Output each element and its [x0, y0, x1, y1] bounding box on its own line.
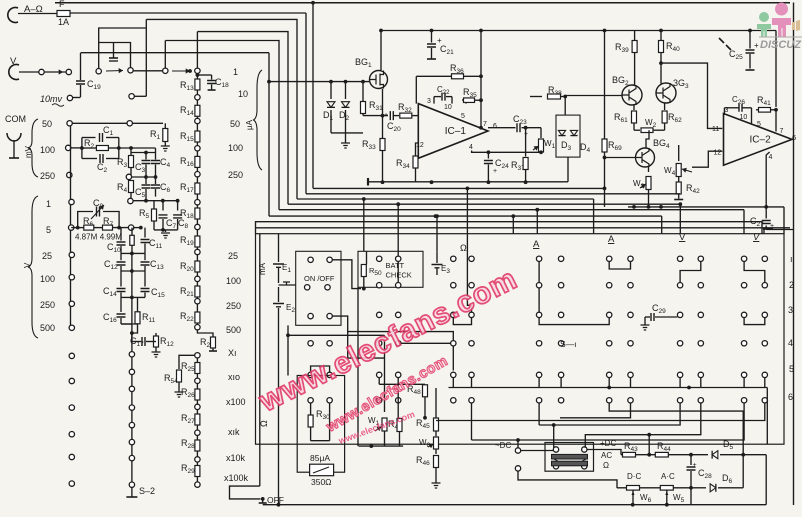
svg-text:W6: W6 — [640, 493, 652, 504]
svg-text:R1: R1 — [150, 129, 161, 141]
wire left drops — [452, 346, 454, 371]
matrix contacts rows — [377, 256, 382, 261]
wire 100 row cont — [117, 146, 121, 150]
wire mA-line down to OFF — [259, 234, 261, 486]
capacitor C21 — [381, 30, 776, 32]
wire pin4 down — [472, 151, 540, 153]
svg-text:R3: R3 — [117, 157, 128, 169]
wire V line — [19, 71, 39, 73]
svg-text:C18: C18 — [215, 77, 229, 89]
divider network R5 C7 C8 — [128, 198, 133, 203]
wire mid H link — [347, 332, 349, 359]
svg-text:C10: C10 — [107, 242, 121, 254]
svg-text:S–2: S–2 — [139, 486, 155, 496]
svg-text:100: 100 — [40, 274, 55, 284]
svg-text:1A: 1A — [58, 17, 69, 27]
wire row5 mid stems — [378, 378, 380, 385]
svg-text:D2: D2 — [339, 110, 350, 122]
wire IC2 pin4 — [766, 152, 769, 207]
wire top rail right — [603, 29, 607, 33]
terminal A-Ohm — [8, 7, 18, 22]
svg-text:C22: C22 — [437, 85, 450, 96]
svg-text:ON /OFF: ON /OFF — [304, 274, 335, 283]
svg-text:BG2: BG2 — [612, 75, 629, 87]
wire BG4 base — [605, 157, 636, 159]
svg-text:R29: R29 — [181, 463, 195, 475]
svg-text:+: + — [493, 168, 497, 175]
svg-text:C16: C16 — [103, 312, 117, 324]
switch S-2 left contacts — [69, 199, 74, 204]
wire middle column down — [131, 253, 133, 484]
svg-text:350Ω: 350Ω — [311, 477, 332, 487]
wire drop x146 — [145, 19, 147, 96]
wire mid bus a — [313, 187, 605, 189]
svg-text:BG1: BG1 — [355, 57, 372, 69]
svg-text:R26: R26 — [181, 387, 195, 399]
svg-text:R44: R44 — [657, 441, 671, 453]
watermark small — [336, 409, 416, 446]
wire analog ground rail — [368, 181, 568, 183]
wire bus3 — [146, 19, 297, 199]
svg-text:C20: C20 — [387, 121, 401, 133]
bracket mV — [28, 119, 38, 177]
svg-text:R35: R35 — [463, 87, 477, 99]
svg-text:W8: W8 — [419, 438, 431, 449]
svg-text:E2: E2 — [286, 303, 295, 314]
svg-text:x10k: x10k — [226, 453, 246, 463]
svg-text:IC–2: IC–2 — [750, 134, 772, 145]
svg-text:100: 100 — [228, 143, 243, 153]
svg-text:10mv: 10mv — [40, 94, 63, 104]
svg-text:D4: D4 — [580, 142, 591, 154]
wire BG1 drain to rail — [380, 31, 382, 71]
svg-text:R40: R40 — [666, 41, 680, 53]
wire onoff down to W1 — [287, 325, 289, 375]
svg-text:3: 3 — [427, 98, 431, 105]
svg-text:R14: R14 — [180, 105, 194, 117]
svg-text:COM: COM — [5, 114, 26, 124]
svg-text:R12: R12 — [160, 336, 174, 348]
divider network R4 C5 C6 — [126, 174, 131, 179]
svg-text:4: 4 — [469, 144, 473, 151]
svg-text:C19: C19 — [87, 79, 101, 91]
svg-text:100: 100 — [226, 276, 241, 286]
svg-text:C4: C4 — [160, 157, 171, 169]
svg-text:25: 25 — [228, 251, 238, 261]
wire matrix connections r1r2 — [538, 262, 540, 283]
svg-text:250: 250 — [226, 301, 241, 311]
rectifier bridge — [545, 443, 594, 472]
svg-text:S—ı: S—ı — [560, 339, 577, 349]
svg-text:500: 500 — [226, 325, 241, 335]
svg-text:C11: C11 — [149, 238, 163, 250]
svg-text:R27: R27 — [181, 413, 195, 425]
battery E1 — [278, 234, 280, 262]
svg-text:4: 4 — [788, 338, 793, 348]
svg-text:250: 250 — [228, 170, 243, 180]
svg-text:C14: C14 — [103, 286, 117, 298]
wire right border — [793, 3, 795, 506]
svg-text:AC: AC — [601, 451, 612, 460]
svg-text:C13: C13 — [150, 259, 164, 271]
op-amp IC-2 — [724, 114, 793, 166]
svg-text:R20: R20 — [180, 261, 194, 273]
wire 50 row — [67, 121, 72, 126]
svg-text:R22: R22 — [180, 311, 194, 323]
svg-text:D3: D3 — [561, 140, 572, 152]
svg-text:R5: R5 — [139, 208, 150, 220]
wire bottom box — [359, 445, 404, 447]
svg-text:C24: C24 — [495, 158, 509, 170]
wire row5 left hooks — [311, 366, 330, 372]
wire bus2 fuse — [305, 13, 307, 194]
wire ac in — [521, 450, 554, 452]
svg-text:11: 11 — [712, 126, 719, 133]
svg-text:D6: D6 — [722, 473, 733, 485]
svg-text:R21: R21 — [180, 286, 194, 298]
wire mid bus b — [306, 193, 680, 195]
bracket V — [28, 196, 38, 338]
svg-text:R45: R45 — [416, 418, 430, 430]
svg-text:2: 2 — [789, 280, 794, 290]
capacitor C18 — [197, 74, 211, 76]
wire D3D4 bottom — [567, 157, 569, 182]
svg-text:6: 6 — [493, 123, 497, 130]
svg-text:xıo: xıo — [228, 372, 240, 382]
svg-text:50: 50 — [230, 119, 240, 129]
svg-text:25: 25 — [42, 251, 52, 261]
svg-text:R13: R13 — [180, 80, 194, 92]
ground top right — [763, 229, 765, 234]
svg-text:R50: R50 — [369, 266, 382, 277]
svg-text:C1: C1 — [103, 125, 114, 137]
svg-text:6: 6 — [788, 392, 793, 402]
wire bus5 — [165, 41, 279, 210]
svg-text:DISCUZ: DISCUZ — [760, 39, 802, 51]
switch box with ground — [99, 28, 147, 69]
svg-text:5: 5 — [46, 225, 51, 235]
wire mid bus g — [256, 222, 763, 234]
wire pot line — [617, 487, 691, 489]
wire batt down to bottom bus — [357, 287, 359, 446]
wire r11 bottom — [132, 330, 138, 333]
svg-text:D·C: D·C — [627, 472, 641, 481]
wire 5V row — [71, 227, 84, 229]
wire drops to matrix — [363, 199, 365, 251]
svg-text:R41: R41 — [757, 95, 771, 107]
svg-text:R31: R31 — [369, 100, 383, 112]
svg-text:mA: mA — [258, 262, 267, 275]
wire onoff to batt — [332, 260, 361, 289]
svg-text:D5: D5 — [723, 439, 734, 451]
svg-text:1: 1 — [233, 67, 238, 77]
svg-text:F: F — [59, 0, 65, 9]
svg-text:μA: μA — [245, 119, 254, 130]
svg-text:A·C: A·C — [661, 472, 675, 481]
svg-text:C12: C12 — [104, 259, 118, 271]
wire gate line — [269, 81, 369, 83]
battery E2 — [278, 287, 280, 302]
svg-text:5: 5 — [789, 364, 794, 374]
svg-text:10: 10 — [238, 89, 248, 99]
node chain — [195, 353, 200, 358]
wire bus6 — [80, 52, 82, 54]
node R13-R14 — [195, 95, 200, 100]
svg-text:D1: D1 — [323, 110, 334, 122]
svg-text:BATT: BATT — [386, 261, 405, 270]
svg-text:4: 4 — [769, 154, 773, 161]
switch S-1 box — [256, 234, 785, 445]
svg-text:W5: W5 — [673, 493, 685, 504]
svg-text:R25: R25 — [181, 361, 195, 373]
svg-text:C7: C7 — [166, 218, 177, 230]
svg-text:R4: R4 — [117, 182, 128, 194]
svg-text:100: 100 — [40, 145, 55, 155]
wire mid bus d — [288, 203, 680, 205]
svg-text:Ω: Ω — [460, 243, 467, 253]
svg-text:R42: R42 — [686, 183, 700, 195]
svg-text:Xı: Xı — [228, 348, 237, 358]
svg-text:mV: mV — [24, 145, 33, 158]
wire BG3 to pin11 — [661, 63, 722, 128]
switch S-2 middle contacts — [129, 352, 134, 357]
svg-text:x100k: x100k — [224, 473, 249, 483]
svg-text:E1: E1 — [282, 263, 291, 274]
svg-text:3: 3 — [788, 305, 793, 315]
svg-text:500: 500 — [40, 323, 55, 333]
wire fuse line — [18, 13, 57, 15]
wire bus4 drop — [196, 32, 198, 69]
svg-text:~DC: ~DC — [495, 441, 511, 450]
switch box ON/OFF — [296, 251, 341, 325]
wire 100 row — [66, 145, 71, 150]
wire diode bottom ground — [331, 132, 363, 134]
wire bus4 — [197, 32, 288, 205]
annotation dashes — [719, 38, 731, 50]
diode D2 — [345, 82, 347, 99]
svg-text:6: 6 — [792, 133, 796, 142]
bracket uA — [254, 70, 263, 170]
svg-text:R61: R61 — [614, 112, 628, 124]
wire left selector line — [70, 126, 72, 328]
svg-text:10: 10 — [740, 114, 748, 121]
svg-text:4.99M: 4.99M — [100, 233, 123, 242]
wire R38 to BG2 base — [565, 95, 622, 97]
capacitor C19 — [80, 53, 82, 80]
wire mid bus e — [279, 209, 744, 211]
wire selector row — [133, 70, 163, 72]
svg-text:IC–1: IC–1 — [445, 126, 467, 137]
wire BG2 BG3 tops — [631, 84, 633, 87]
resistor R2 / C1 / C2 network — [80, 146, 84, 150]
svg-text:R34: R34 — [396, 158, 410, 170]
250 row — [67, 172, 72, 177]
svg-text:Ω: Ω — [603, 461, 609, 470]
svg-text:R43: R43 — [624, 441, 638, 453]
svg-text:R28: R28 — [181, 438, 195, 450]
svg-text:C6: C6 — [160, 182, 171, 194]
wire row2-row3 link — [538, 288, 540, 312]
op-amp IC-1 — [418, 104, 488, 159]
svg-text:1: 1 — [46, 199, 51, 209]
svg-text:R17: R17 — [180, 182, 194, 194]
svg-text:R19: R19 — [180, 235, 194, 247]
svg-text:W1: W1 — [544, 139, 556, 150]
svg-text:xık: xık — [228, 427, 240, 437]
svg-text:E3: E3 — [441, 264, 450, 275]
svg-text:V: V — [23, 262, 32, 268]
ground S-2 — [131, 487, 133, 497]
svg-text:C15: C15 — [151, 287, 165, 299]
wire bus1 — [312, 3, 314, 189]
wire dc out — [587, 450, 621, 455]
svg-text:BG4: BG4 — [653, 138, 670, 150]
wire pin12 W4 — [692, 151, 722, 167]
svg-text:C21: C21 — [440, 44, 454, 56]
svg-text:R33: R33 — [362, 139, 376, 151]
potentiometer W5 — [660, 486, 673, 491]
resistor R1 — [164, 123, 166, 128]
wire bus5 drop — [164, 41, 166, 69]
svg-text:C2: C2 — [97, 162, 108, 174]
svg-text:50: 50 — [42, 119, 52, 129]
svg-text:+: + — [754, 41, 759, 50]
wire main tap line — [81, 52, 270, 54]
divider network R3 C3 C4 — [129, 146, 133, 150]
svg-text:R36: R36 — [450, 63, 464, 75]
svg-text:V: V — [679, 232, 686, 243]
wire dc low path — [518, 471, 617, 488]
wire mid bus c — [297, 198, 594, 200]
svg-text:5: 5 — [461, 113, 465, 120]
svg-text:A: A — [608, 234, 615, 245]
svg-text:W4: W4 — [664, 166, 676, 177]
ground OFF — [262, 499, 264, 503]
svg-text:R62: R62 — [668, 112, 682, 124]
svg-text:7: 7 — [780, 128, 784, 135]
svg-text:R46: R46 — [416, 455, 430, 467]
wire row4 link — [401, 342, 451, 344]
potentiometer W6 — [627, 486, 640, 491]
wire bottom rail — [263, 504, 767, 506]
watermark big — [254, 262, 523, 418]
svg-text:250: 250 — [40, 300, 55, 310]
svg-text:R11: R11 — [142, 312, 156, 324]
svg-text:R32: R32 — [398, 102, 412, 114]
battery E3 — [436, 251, 438, 263]
svg-text:OFF: OFF — [267, 495, 284, 505]
logo discuz — [757, 3, 802, 52]
svg-text:R69: R69 — [608, 140, 622, 152]
watermark medium — [323, 353, 451, 436]
diodes D3 D4 box — [564, 97, 566, 116]
wire mid bus f — [269, 215, 662, 217]
svg-text:C28: C28 — [698, 468, 712, 480]
diode D1 — [330, 82, 332, 99]
svg-text:85μA: 85μA — [310, 453, 330, 463]
wire E mid — [279, 284, 296, 286]
wire row5 bus — [449, 387, 768, 389]
svg-text:10: 10 — [444, 104, 452, 111]
svg-text:R16: R16 — [180, 156, 194, 168]
svg-text:C5: C5 — [135, 187, 146, 199]
svg-text:ı: ı — [790, 254, 793, 264]
battery check box — [358, 251, 423, 287]
wire fb vertical — [480, 31, 482, 128]
svg-text:R39: R39 — [615, 42, 629, 54]
svg-text:R15: R15 — [180, 131, 194, 143]
svg-text:250: 250 — [40, 171, 55, 181]
resistor R50 — [361, 265, 366, 277]
svg-text:+: + — [693, 462, 697, 469]
svg-text:5: 5 — [757, 121, 761, 128]
wire BG1 source down — [382, 89, 384, 138]
svg-text:7: 7 — [483, 121, 487, 128]
svg-text:A: A — [533, 239, 540, 250]
svg-text:4.87M: 4.87M — [75, 233, 98, 242]
svg-text:Ω: Ω — [259, 420, 269, 427]
wire matrix connections r3 — [332, 316, 453, 341]
wire mid bus i — [256, 227, 791, 229]
wire emitters bottom — [628, 206, 784, 208]
svg-text:CHECK: CHECK — [386, 271, 412, 280]
wire top border — [55, 2, 790, 4]
wire row6 drops — [609, 403, 743, 455]
C10 box small resistor — [131, 228, 133, 235]
meter box — [297, 376, 344, 473]
svg-text:x100: x100 — [226, 397, 246, 407]
svg-text:C25: C25 — [729, 49, 743, 61]
